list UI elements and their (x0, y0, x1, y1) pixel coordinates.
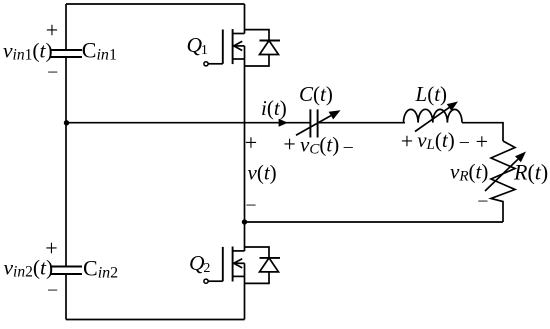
svg-text:–: – (47, 61, 58, 81)
arrowhead C(t) (329, 110, 341, 119)
junction dot bottom return (242, 219, 247, 224)
transistor Q1 channel bar (232, 29, 234, 64)
wire L(t) to corner (462, 123, 503, 141)
arrowhead R(t) (515, 152, 526, 163)
wire bottom return (245, 221, 504, 223)
wire half-bridge vertical lower (source Q2 to bottom) (244, 263, 246, 319)
svg-text:Cin1: Cin1 (82, 38, 117, 64)
variable arrow over R(t) (485, 159, 518, 191)
current arrowhead i(t) (279, 119, 288, 127)
wire top rail (66, 3, 245, 5)
svg-text:+: + (46, 18, 58, 43)
transistor Q2 source stub (233, 275, 245, 277)
wire half-bridge vertical upper (drain Q1) (244, 4, 246, 34)
wire bottom rail (66, 319, 245, 321)
svg-text:+: + (401, 128, 413, 153)
transistor Q2 gate lead (208, 280, 223, 282)
junction dot left (64, 120, 69, 125)
svg-text:–: – (47, 279, 58, 299)
arrowhead L(t) (447, 102, 458, 111)
svg-text:Q1: Q1 (187, 33, 208, 58)
svg-text:v(t): v(t) (248, 161, 277, 185)
variable arrow over L(t) (415, 107, 449, 131)
svg-text:L(t): L(t) (415, 82, 448, 106)
transistor Q1 drain stub (233, 33, 245, 35)
wire half-bridge vertical middle (source Q1 to drain Q2) (244, 46, 246, 251)
diode D2 triangle (260, 258, 279, 272)
diode D1 cathode bar (260, 40, 281, 42)
wire C(t) to L(t) (318, 122, 405, 124)
inductor L(t) humps (404, 109, 463, 122)
svg-text:+: + (45, 235, 57, 260)
svg-text:C(t): C(t) (299, 82, 333, 106)
svg-text:–: – (246, 194, 257, 214)
capacitor C(t) plates (310, 109, 317, 137)
wire left vertical (above Cin1) (65, 4, 67, 50)
transistor Q2 channel bar (232, 247, 234, 282)
resistor R(t) zigzag (491, 141, 515, 222)
transistor Q1 gate lead (208, 63, 223, 65)
transistor Q1 mid line (233, 45, 245, 47)
svg-text:vL(t): vL(t) (417, 128, 455, 153)
transistor Q2 arrow (234, 259, 242, 268)
transistor Q2 gate bar (222, 247, 224, 281)
svg-text:+: + (283, 132, 295, 157)
svg-text:Q2: Q2 (189, 251, 210, 276)
variable arrow over C(t) (296, 116, 331, 136)
transistor Q1 source stub (233, 58, 245, 60)
diode D1 bottom branch (245, 55, 270, 67)
capacitor Cin1 plates (50, 50, 82, 57)
svg-text:–: – (459, 131, 470, 151)
diode D2 bottom branch (245, 272, 270, 284)
wire output node horizontal (66, 122, 310, 124)
svg-text:–: – (343, 136, 354, 156)
transistor Q2 gate circle (204, 279, 208, 283)
transistor Q1 arrow (234, 41, 242, 50)
wire left vertical (below Cin2) (65, 274, 67, 320)
transistor Q2 mid line (233, 262, 245, 264)
svg-text:R(t): R(t) (513, 160, 548, 185)
capacitor Cin2 plates (50, 267, 82, 275)
wire left vertical (between Cin1 and Cin2) (65, 57, 67, 267)
diode D2 cathode bar (260, 257, 281, 259)
svg-text:Cin2: Cin2 (83, 256, 118, 282)
svg-text:+: + (476, 129, 488, 154)
transistor Q1 gate circle (204, 62, 208, 66)
svg-text:vR(t): vR(t) (450, 160, 488, 185)
diode D2 top branch (245, 247, 270, 258)
diode D1 triangle (260, 41, 279, 55)
svg-text:–: – (477, 189, 488, 209)
svg-text:+: + (245, 130, 257, 155)
svg-text:vC(t): vC(t) (300, 132, 339, 157)
transistor Q1 gate bar (222, 30, 224, 64)
svg-text:i(t): i(t) (261, 96, 287, 120)
diode D1 top branch (245, 30, 270, 41)
transistor Q2 drain stub (233, 250, 245, 252)
